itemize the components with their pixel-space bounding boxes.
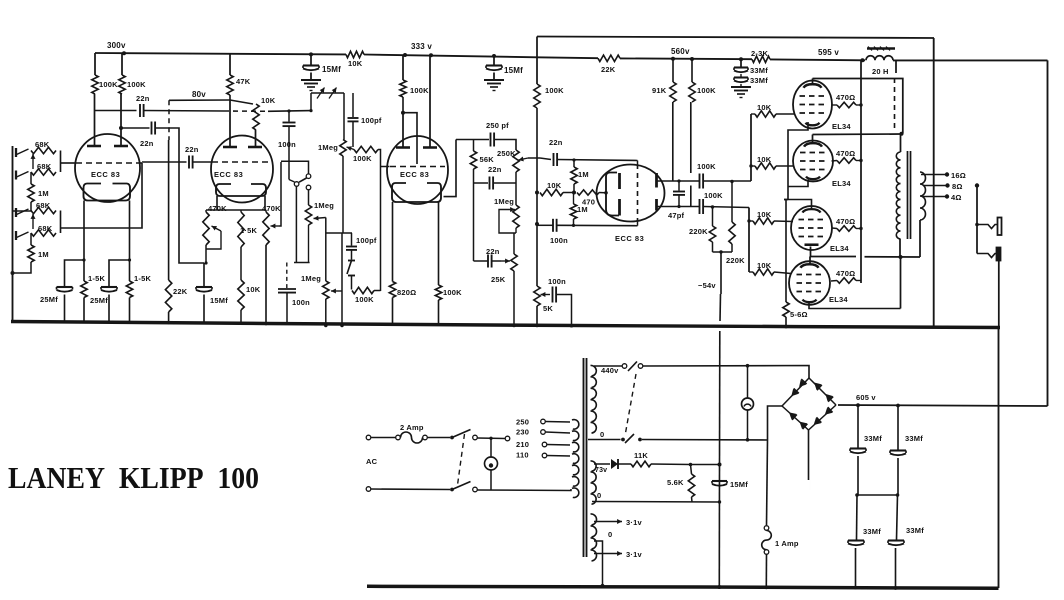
label 33Mf C22	[863, 527, 881, 536]
wire ground bus to PSU rail right edge	[998, 328, 1000, 589]
choke 20H L1	[866, 47, 895, 61]
wire tone loop bottom	[474, 182, 489, 184]
tube V4 plate bar B	[655, 199, 658, 211]
svg-text:470Ω: 470Ω	[836, 149, 855, 158]
wire C14 to ground	[556, 295, 571, 326]
svg-text:10K: 10K	[757, 155, 772, 164]
svg-text:470K: 470K	[262, 204, 281, 213]
wire speaker return to ground bus	[998, 261, 1000, 328]
label 68K R2a	[36, 201, 51, 210]
node dot rail 100K-PI	[690, 57, 694, 61]
label 1-5K R7	[88, 274, 105, 283]
tube V7 plate lead	[810, 247, 812, 257]
wire AC live to fuse	[371, 437, 396, 439]
resistor 1-5K R12 cathode V2	[238, 210, 244, 247]
label 33Mf C-f3	[750, 66, 768, 75]
node dot lamp bottom	[746, 438, 750, 442]
node dot bias node	[689, 463, 693, 467]
svg-text:33Mf: 33Mf	[863, 527, 881, 536]
label 10K R26	[757, 103, 772, 112]
wire C18 to drive A	[703, 180, 751, 182]
resistor 100K R14 grid stopper	[354, 146, 378, 152]
label 10K R22	[547, 181, 562, 190]
wire -54v to bottom rail	[718, 465, 720, 588]
bridge rectifier D1-D4	[782, 378, 836, 430]
svg-text:56K: 56K	[480, 155, 495, 164]
svg-text:300v: 300v	[107, 41, 126, 50]
tube V1 grid exit right	[140, 162, 143, 164]
wire V1b cathode to 25Mf	[109, 260, 130, 286]
label 1Meg VR7	[494, 197, 514, 206]
wire V1b plate out	[121, 127, 150, 129]
speaker jack terminal B	[997, 248, 1001, 261]
label 100K R16	[410, 86, 429, 95]
wire speaker feed drop	[976, 186, 978, 254]
label 10K R10	[261, 96, 276, 105]
tube V3 cathode lead A	[392, 202, 394, 282]
label ECC 83 V2	[214, 170, 243, 179]
resistor 820 R17 cathode V3a	[389, 282, 395, 326]
AC input terminal neutral	[366, 487, 371, 492]
label 1Meg VR4	[318, 143, 338, 152]
switch S1a klipp pole	[289, 180, 299, 187]
arrow input link ch2	[31, 214, 36, 229]
label 33Mf C20	[864, 434, 882, 443]
selector terminal 110	[542, 453, 570, 458]
wire V7 V8 plate line	[811, 256, 857, 258]
pot VR8 wiper arrow	[492, 259, 510, 264]
wire 68K ch1 junction	[60, 151, 62, 173]
label 100K R15	[355, 295, 374, 304]
resistor 2-3K R-rail3 in HT rail	[752, 56, 770, 62]
potentiometer 25K VR8	[511, 254, 517, 326]
input jack J1	[16, 148, 29, 157]
svg-text:25Mf: 25Mf	[40, 295, 58, 304]
label 250 tap	[516, 418, 529, 427]
node dot 605v cap2	[896, 404, 900, 408]
svg-text:15Mf: 15Mf	[504, 66, 523, 75]
tube V6 plate lead	[812, 135, 814, 143]
label 333 v	[411, 42, 432, 51]
ground symbol below 33Mf pair	[731, 87, 751, 98]
node dot drive A row2	[749, 164, 752, 167]
svg-text:100K: 100K	[410, 86, 429, 95]
node dot screen bus row3	[859, 227, 862, 230]
svg-text:1 Amp: 1 Amp	[775, 539, 799, 548]
node dot 15Mf-1 rail	[309, 52, 313, 56]
svg-text:230: 230	[516, 428, 529, 437]
resistor 10K R10 plate load V2b	[253, 104, 259, 130]
resistor 100K R15	[352, 287, 374, 293]
fuse 1 Amp F2	[762, 440, 772, 587]
wire S1 hook	[294, 262, 310, 264]
transformer T1 bias winding	[591, 461, 597, 504]
svg-text:1M: 1M	[578, 170, 589, 179]
resistor 5.6K R40 bias load	[688, 465, 694, 503]
selector terminal 250	[541, 419, 570, 424]
resistor 10K R-rail1 in HT rail	[346, 51, 364, 57]
svg-text:73v: 73v	[595, 467, 607, 474]
HT switch link dashed	[626, 374, 637, 433]
capacitor 100pf C9 bright	[348, 93, 359, 147]
node dot C14 ground	[570, 324, 574, 328]
wire VR3 wiper to VR5	[325, 233, 327, 281]
capacitor 100n C8 coupling	[286, 263, 288, 289]
HT switch S2c blade	[628, 362, 637, 372]
tube V1 plate B	[114, 94, 128, 146]
node dot OT primary bottom junction	[899, 255, 903, 259]
wire trimmer right leg to 1Meg A	[343, 93, 345, 140]
potentiometer 1Meg VR3 klipp volume	[305, 205, 311, 225]
label 0 bias tap	[597, 491, 601, 500]
svg-text:220K: 220K	[726, 256, 745, 265]
svg-text:ECC 83: ECC 83	[615, 234, 644, 243]
capacitor 33Mf C22	[848, 495, 864, 588]
resistor 10K R13 V2 cathode filter	[238, 247, 244, 325]
node dot rail screen bus	[861, 58, 865, 62]
wire output cathode bus	[784, 200, 788, 303]
selector terminal 210	[542, 442, 570, 447]
resistor 100K R16 plate load V3a	[400, 55, 406, 113]
resistor 100K R6 plate load V1b	[119, 53, 125, 94]
svg-text:80v: 80v	[192, 90, 206, 99]
wire tone to C15	[540, 158, 551, 160]
resistor 1M R4 grid leak ch2	[13, 233, 35, 273]
switch S2b contact	[473, 487, 478, 492]
node dot rail 33Mf pair	[739, 57, 743, 61]
wire plate A to C18	[679, 180, 699, 182]
switch S1a contact top	[306, 174, 311, 179]
label 100K R14	[353, 154, 372, 163]
wire top link right drop	[933, 38, 935, 327]
switch S1a blade	[299, 178, 307, 182]
tube V1 ECC83 envelope	[75, 134, 140, 202]
capacitor 100n C7 bright	[283, 111, 296, 180]
label 22K R11	[173, 287, 188, 296]
tube V5 cathode lead	[788, 122, 808, 200]
wire filter mid link	[855, 493, 899, 497]
resistor 1-5K R8 cathode V1b	[126, 260, 132, 322]
resistor 10K R26 grid EL34-1	[751, 111, 795, 117]
label 250 pf	[486, 121, 509, 130]
label 100n C16	[550, 236, 568, 245]
resistor 68K R2b	[31, 230, 56, 236]
potentiometer 470K VR2	[263, 210, 269, 245]
svg-text:250K: 250K	[497, 149, 516, 158]
tube V8 plate lead	[809, 257, 811, 264]
wire OT primary bottom lead	[899, 239, 901, 257]
mains transformer T1 primary winding	[572, 420, 579, 498]
svg-text:22n: 22n	[549, 138, 563, 147]
svg-text:22n: 22n	[486, 247, 500, 256]
svg-text:110: 110	[516, 451, 529, 460]
wire -54v line upper	[720, 252, 721, 321]
svg-text:22n: 22n	[136, 94, 150, 103]
input jack J4	[16, 231, 29, 240]
wire CF cathode out	[444, 140, 457, 197]
capacitor 25Mf C5 bypass	[101, 287, 117, 322]
wire R22 to R23	[563, 192, 574, 194]
wire 80v to 10K top	[230, 100, 253, 104]
tube V2 cathode bus	[206, 209, 266, 211]
label 1Meg VR5	[301, 274, 321, 283]
capacitor 22n C12	[490, 177, 494, 190]
pot VR6 wiper to PI	[519, 157, 541, 162]
capacitor 100pf C10	[346, 233, 357, 260]
wire V2 grid to wiper	[279, 162, 281, 226]
node dot -54v bottom rail	[717, 585, 721, 589]
svg-text:560v: 560v	[671, 47, 690, 56]
wire HT rail 595v segment	[770, 58, 865, 61]
resistor 1M R25 grid2 ref	[570, 193, 576, 226]
capacitor 22n C13	[488, 255, 492, 268]
resistor 100K R33 divider	[689, 59, 695, 207]
label 1M R4	[38, 250, 49, 259]
capacitor 33Mf C20	[850, 405, 866, 495]
transformer OT primary winding	[896, 152, 900, 239]
svg-text:4Ω: 4Ω	[951, 193, 962, 202]
label 3-1v B	[626, 550, 642, 559]
svg-text:470Ω: 470Ω	[836, 269, 855, 278]
label 100pf C10	[356, 236, 377, 245]
label 56K R19	[480, 155, 495, 164]
resistor 47K R9 plate load V2a	[227, 54, 233, 95]
svg-text:5-6Ω: 5-6Ω	[790, 310, 808, 319]
wire AC neutral to switch	[371, 488, 450, 491]
tube V8 EL34 envelope	[789, 261, 830, 305]
capacitor 33Mf C-f3 bias decoupling	[734, 59, 748, 76]
label 5K VR9	[543, 304, 553, 313]
resistor 10K R27 grid EL34-2	[751, 163, 794, 169]
svg-text:EL34: EL34	[830, 244, 849, 253]
resistor 11K R39	[619, 461, 691, 467]
tube V1 plate A	[87, 94, 101, 146]
label 0 heater tap	[608, 530, 612, 539]
node dot 5K ground	[535, 324, 539, 328]
wire ch2 grid line	[61, 163, 143, 228]
label 220K R31	[726, 256, 745, 265]
svg-text:68K: 68K	[37, 162, 52, 171]
wire 250K to 1Meg tone pot	[515, 183, 517, 205]
label 470K VR1	[208, 204, 227, 213]
tube V6 cathode lead	[788, 180, 808, 187]
wire 16 ohm tap	[921, 172, 949, 176]
label EL34 V5	[832, 122, 851, 131]
tube V2 plate B	[248, 130, 262, 147]
tube V1 cathode lead A	[83, 201, 85, 261]
capacitor 100K... C18 coupling top	[700, 174, 704, 189]
speaker jack terminal A	[998, 218, 1002, 236]
svg-text:250 pf: 250 pf	[486, 121, 509, 130]
tube V2 cathode lead A	[216, 196, 218, 210]
node dot rail at 100K pre3	[403, 53, 407, 57]
svg-text:1Meg: 1Meg	[301, 274, 321, 283]
label 25K VR8	[491, 275, 506, 284]
wire HT to bridge top	[643, 366, 809, 379]
label 33Mf C23	[906, 526, 924, 535]
label 22n C6	[185, 145, 199, 154]
svg-text:1Meg: 1Meg	[318, 143, 338, 152]
wire C6 to V2 grid	[193, 161, 212, 163]
label 595 v	[818, 48, 839, 57]
resistor 68K R1a	[31, 147, 56, 153]
potentiometer 470K VR1	[203, 210, 209, 245]
capacitor 15Mf C-f1 decoupling	[303, 54, 319, 79]
svg-text:22K: 22K	[173, 287, 188, 296]
tube V4 cathode bar B	[618, 199, 621, 216]
tube V5 plate lead	[812, 79, 814, 86]
capacitor 100n C16 PI grid2	[553, 219, 557, 232]
label EL34 V7	[830, 244, 849, 253]
tube V2 cathode	[216, 184, 266, 196]
AC input terminal live	[366, 435, 371, 440]
svg-text:ECC 83: ECC 83	[91, 170, 120, 179]
wire B+ column 537	[536, 37, 538, 85]
svg-text:5.6K: 5.6K	[667, 478, 684, 487]
resistor 5-6 R38 common cathode	[783, 302, 789, 327]
label 100K C18 row	[697, 162, 716, 171]
label 25Mf C4	[40, 295, 58, 304]
potentiometer 1Meg VR7	[513, 205, 519, 228]
tube V5 EL34 envelope	[793, 81, 832, 129]
tube V7 cathode lead top	[784, 200, 812, 209]
svg-text:1-5K: 1-5K	[134, 274, 151, 283]
node dot F2 rail	[764, 585, 768, 589]
svg-text:100n: 100n	[292, 298, 310, 307]
svg-text:100K: 100K	[704, 191, 723, 200]
svg-text:68K: 68K	[38, 224, 53, 233]
input jack J3	[16, 208, 29, 217]
resistor 220K R31 bias feed B	[729, 182, 735, 253]
svg-text:470K: 470K	[208, 204, 227, 213]
node dot C22 rail	[854, 586, 858, 590]
svg-text:100K: 100K	[697, 162, 716, 171]
label 10K R-rail1	[348, 59, 363, 68]
svg-text:250: 250	[516, 418, 529, 427]
wire 80v node	[169, 95, 230, 100]
wire HT 0 to bridge left	[642, 439, 768, 442]
node dot V4 cathode	[604, 191, 608, 195]
label 100K R20	[545, 86, 564, 95]
label 1 5K R12	[240, 226, 257, 235]
pot VR3 wiper	[314, 216, 326, 221]
node dot 605v cap1	[856, 403, 860, 407]
wire 56K column down	[473, 183, 475, 261]
svg-text:22n: 22n	[185, 145, 199, 154]
label 22n C1	[136, 94, 150, 103]
wire C1 to bright line	[144, 110, 224, 113]
wire S1a to VR3 top	[308, 190, 310, 205]
label 1M R3	[38, 189, 49, 198]
label 22n C2	[140, 139, 154, 148]
svg-text:470Ω: 470Ω	[836, 217, 855, 226]
potentiometer 5K VR9 tail	[534, 286, 540, 326]
svg-text:EL34: EL34	[832, 122, 851, 131]
wire V2 grid to S1a	[281, 161, 309, 174]
label 210 tap	[516, 440, 529, 449]
HT switch S2c terminal	[638, 364, 643, 369]
switch S2a pole	[450, 436, 454, 440]
svg-text:15Mf: 15Mf	[322, 65, 341, 74]
ground symbol below 15Mf C-f1	[301, 80, 321, 91]
svg-text:0: 0	[608, 530, 612, 539]
label 300v	[107, 41, 126, 50]
input jack J2	[16, 171, 29, 180]
wire V6 plate to OT junction	[813, 133, 902, 136]
tube V3 plate A	[396, 113, 410, 148]
svg-text:1·5K: 1·5K	[240, 226, 257, 235]
svg-text:10K: 10K	[757, 210, 772, 219]
resistor 100K R20	[534, 84, 540, 177]
label 100n C7	[278, 140, 296, 149]
wire wiper node to 1Meg pot A bottom	[326, 232, 352, 234]
tube V4 cathode C shape	[606, 173, 619, 216]
transformer T1 heater winding	[591, 514, 597, 561]
label 10K R29	[757, 261, 772, 270]
switch S2b pole	[450, 488, 454, 492]
svg-text:LANEY KLIPP 100: LANEY KLIPP 100	[8, 460, 259, 495]
label 1M R25	[577, 205, 588, 214]
svg-text:0: 0	[597, 491, 601, 500]
node dot C23 rail	[894, 586, 898, 590]
svg-text:91K: 91K	[652, 86, 667, 95]
svg-text:ECC 83: ECC 83	[400, 170, 429, 179]
svg-text:25Mf: 25Mf	[90, 296, 108, 305]
PSU bottom 0V rail	[367, 586, 999, 588]
node dot cathode bus ground	[784, 325, 788, 329]
node dot VR4 ground	[340, 324, 344, 328]
wire OT secondary bottom	[919, 220, 921, 257]
wire VR3 wiper down	[325, 218, 327, 234]
wire trimmer left leg	[310, 93, 312, 111]
label 73v tap	[595, 467, 607, 474]
label 100pf C9	[361, 116, 382, 125]
capacitor 33Mf C23	[888, 495, 904, 588]
wire drive A riser	[750, 114, 752, 181]
arrow input link ch1	[31, 154, 36, 169]
svg-text:210: 210	[516, 440, 529, 449]
tube V8 grid entry	[774, 272, 789, 274]
wire HT rail 333v segment	[364, 55, 598, 59]
wire V3 grid entry	[381, 166, 390, 168]
label EL34 V8	[829, 295, 848, 304]
capacitor 15Mf C24 bias filter	[712, 481, 727, 502]
label 470 R23	[582, 198, 595, 207]
svg-text:10K: 10K	[547, 181, 562, 190]
label 33Mf C-f4	[750, 76, 768, 85]
transformer T1 HT secondary winding	[591, 365, 597, 433]
transformer OT secondary winding	[920, 172, 926, 220]
wire heater CT to rail	[594, 541, 603, 586]
wire heater tap B	[594, 551, 622, 556]
label 1M R21	[578, 170, 589, 179]
wire tone loop top	[456, 139, 489, 141]
svg-text:100K: 100K	[545, 86, 564, 95]
svg-text:AC: AC	[366, 457, 378, 466]
label 8 ohm	[952, 182, 963, 191]
pot VR9 wiper	[541, 292, 551, 297]
svg-text:10K: 10K	[246, 285, 261, 294]
wire bridge left corner riser	[768, 406, 783, 440]
pot VR2 wiper	[271, 224, 280, 229]
node dot trimmer left	[309, 109, 312, 112]
voltage selector wander plug	[505, 436, 510, 441]
resistor 22K R11 80v divider	[165, 140, 171, 324]
svg-text:33Mf: 33Mf	[864, 434, 882, 443]
capacitor 22n C6 coupling ch2	[189, 156, 193, 169]
wire VR7 to 25K	[514, 228, 516, 254]
wire V8 cathode line to OT junction	[900, 257, 902, 309]
